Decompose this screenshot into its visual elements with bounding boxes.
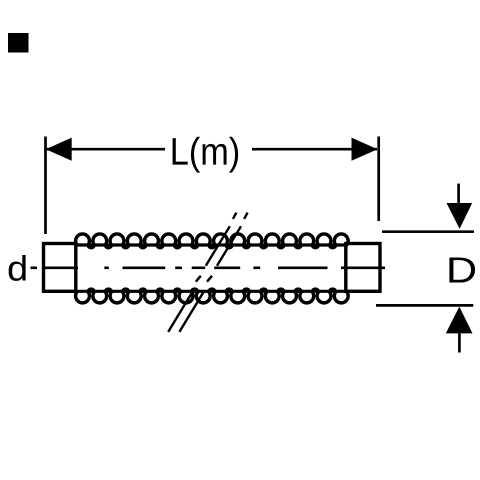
dimension L(m): right extension line xyxy=(377,137,380,222)
dimension D: bottom arrowhead (points up) xyxy=(446,307,473,334)
dimension D: top arrowhead (points down) xyxy=(447,203,473,229)
dimension L(m): right arrowhead xyxy=(352,138,378,161)
label L(m) xyxy=(173,137,238,173)
wire: centerline dash 3b xyxy=(214,266,240,269)
wire: centerline dash 3a xyxy=(192,266,206,269)
break mark line 1, top tick xyxy=(233,213,237,219)
wire: centerline dash 4 xyxy=(278,266,328,269)
break mark line 2, upper segment xyxy=(217,226,241,266)
wire: centerline dash 2 xyxy=(123,266,166,269)
dimension D: top extension line xyxy=(382,230,474,233)
wire: centerline through right cap xyxy=(341,266,385,269)
wire: centerline dot 1 xyxy=(104,266,109,269)
label D xyxy=(449,257,475,282)
break mark line 2, top tick xyxy=(244,213,248,219)
dimension L(m): dimension line left part xyxy=(46,148,165,151)
wire: centerline dot 2 xyxy=(175,266,182,269)
hose top wall line xyxy=(76,243,348,246)
logo block (black square, top-left) xyxy=(8,33,29,53)
break mark line 1 (left), lower segment xyxy=(168,213,247,332)
dimension D: top arrow stem xyxy=(457,184,460,204)
wire: centerline dash 1 xyxy=(31,266,38,269)
label d xyxy=(9,255,26,281)
center line (dash-dot axis) xyxy=(31,266,386,269)
break mark line 2 (right), lower segment xyxy=(179,291,204,332)
hose top corrugation wave xyxy=(76,234,349,248)
break mark line 1, upper segment xyxy=(206,226,230,266)
wire: centerline through left cap xyxy=(44,266,78,269)
dimension L(m): left extension line xyxy=(44,137,47,235)
hose left end cap xyxy=(44,244,76,292)
dimension L(m): left arrowhead xyxy=(46,138,72,161)
break mark line 1, middle tick xyxy=(196,276,201,282)
hose bottom corrugation wave xyxy=(76,289,349,303)
dimension L(m): dimension line right part xyxy=(252,148,377,151)
wire: centerline dot 3 xyxy=(253,266,260,269)
hose bottom wall line xyxy=(76,290,348,293)
dimension D: bottom extension line xyxy=(376,304,473,307)
dimension D: bottom arrow stem xyxy=(458,333,461,352)
break mark line 2, middle tick xyxy=(207,276,212,282)
hose right end cap xyxy=(346,244,380,292)
